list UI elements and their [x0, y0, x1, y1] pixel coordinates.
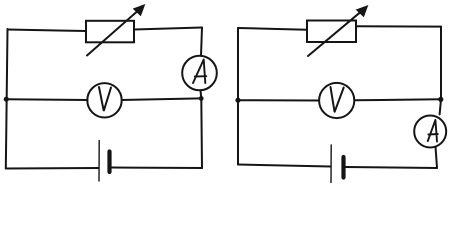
wire: right circuit left vertical: [237, 28, 239, 165]
wire: right circuit right vertical upper: [440, 27, 442, 100]
wire: right circuit top wire right segment: [356, 25, 441, 27]
wire: left circuit top wire right segment: [134, 28, 202, 30]
rheostat R1 body: [86, 21, 134, 43]
rheostat R1 arrow: [87, 10, 139, 55]
node: left circuit right junction: [199, 96, 204, 101]
voltmeter V1: [87, 83, 121, 117]
battery GB2 negative plate (long thin): [330, 145, 332, 183]
rheostat R2 body: [307, 21, 356, 43]
wire: right circuit from junction down to ammeter: [440, 100, 441, 115]
wire: left circuit right vertical from ammeter to bottom: [201, 90, 203, 168]
battery GB2 positive plate (short thick): [341, 157, 345, 178]
rheostat R2 arrow: [308, 11, 362, 56]
wire: left circuit bottom wire right segment: [112, 167, 203, 170]
wire: right circuit from ammeter down to bottom wire: [436, 147, 438, 169]
ammeter A2: [414, 116, 446, 148]
voltmeter V2: [319, 83, 354, 118]
wire: right circuit middle wire left segment: [238, 99, 319, 101]
node: left circuit left junction: [4, 97, 9, 102]
wire: left circuit top wire left segment: [8, 30, 87, 32]
wire: left circuit top-left vertical (left side): [6, 29, 8, 169]
wire: right circuit middle wire right segment: [354, 99, 440, 100]
node: right circuit right junction: [438, 97, 443, 102]
ammeter A1: [182, 56, 217, 91]
wire: left circuit bottom wire left segment: [6, 167, 99, 170]
wire: left circuit middle wire right segment: [122, 98, 201, 100]
wire: left circuit right vertical upper (to ammeter): [201, 28, 202, 56]
wire: right circuit top wire left segment: [238, 28, 307, 30]
wire: right circuit bottom wire right segment: [346, 167, 438, 168]
wire: left circuit middle wire left segment: [6, 98, 87, 101]
node: right circuit left junction: [235, 98, 240, 103]
battery GB1 negative plate (long thin): [98, 141, 100, 182]
wire: right circuit bottom wire left segment: [238, 165, 331, 167]
battery GB1 positive plate (short thick): [107, 152, 111, 173]
